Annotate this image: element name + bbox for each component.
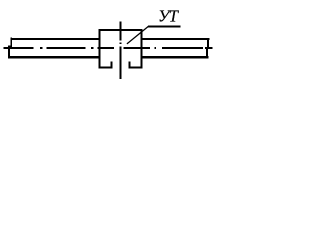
wire pipe top line left segment bbox=[11, 38, 100, 40]
svg-text:УТ: УТ bbox=[158, 6, 180, 25]
wire pipe top line right segment bbox=[141, 38, 209, 40]
wire leader shelf under label bbox=[148, 25, 181, 27]
wire pipe centerline dash-dot bbox=[4, 47, 213, 49]
node pipe break symbol left bbox=[8, 38, 12, 59]
wire vertical axis centerline of transducer bbox=[119, 22, 121, 80]
node pipe break symbol right bbox=[207, 38, 208, 58]
transducer flange bracket right bbox=[129, 61, 143, 68]
wire leader line diagonal to label bbox=[127, 26, 149, 44]
wire pipe bottom line right segment bbox=[141, 56, 208, 58]
transducer flange bracket left bbox=[98, 61, 112, 68]
transducer U1 body box bbox=[98, 29, 142, 69]
wire pipe bottom line left segment bbox=[8, 56, 99, 58]
